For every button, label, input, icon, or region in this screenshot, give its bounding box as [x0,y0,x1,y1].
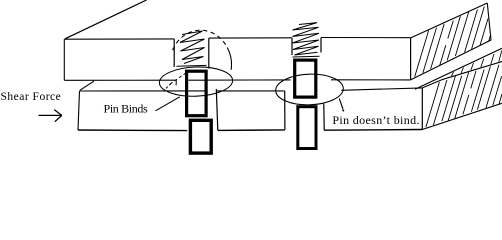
hole left wall right pin [284,91,286,130]
top plate end face hatching [415,7,491,77]
shear force arrow head [54,110,62,122]
annotation arc right tail [227,48,231,70]
leader dashed continuation [170,72,188,85]
leader line Pin Binds [156,97,180,111]
top plate end face right edge [487,3,491,40]
leader dot [342,110,344,112]
top plate front face top edge [64,38,410,40]
bottom plate left edge [78,91,80,130]
pin P1 upper [187,71,207,116]
bottom plate right edge [421,88,423,130]
bottom plate end face bottom edge [422,103,502,129]
shear force arrow shaft [39,114,62,116]
bottom plate top face sliver hatching [452,51,502,77]
top plate bottom edge [64,79,410,82]
hole right wall left pin [216,89,218,130]
bottom plate top edge [80,88,422,91]
bottom plate back top receding edge [415,48,502,89]
top plate top face right receding edge [411,3,487,38]
slot 2 left edge [291,38,293,55]
svg-text:Pin doesn’t bind.: Pin doesn’t bind. [332,113,419,127]
svg-text:Shear Force: Shear Force [1,91,62,103]
bottom plate top face right receding edge [422,62,502,88]
spring S1 [177,31,207,66]
top plate left edge [63,39,65,80]
top plate top face left receding edge [65,0,147,39]
bottom plate end face hatching [426,65,502,127]
slot 1 right edge [208,38,210,68]
top plate right edge [410,38,412,80]
pin P2 lower [298,107,316,149]
top plate end face bottom edge [411,40,491,80]
spring S2 [293,23,320,57]
bottom plate bottom edge [78,130,422,131]
slot 2 right edge [320,38,322,53]
slot 1 left edge [173,39,175,67]
annotation ellipse right [275,73,344,106]
annotation ellipse left [159,66,233,98]
annotation dashed arc left [173,30,228,50]
bottom plate top face left receding edge [80,81,94,90]
leader line Pin doesn't bind [339,99,343,110]
pin P1 lower [190,120,211,153]
hole wall tick left [175,80,177,85]
hole wall dashes left [164,84,171,91]
pin P2 upper [295,60,316,97]
gap lines crossing pin P1 [188,80,205,91]
hole right wall right pin [323,104,325,130]
svg-text:Pin Binds: Pin Binds [104,102,149,116]
